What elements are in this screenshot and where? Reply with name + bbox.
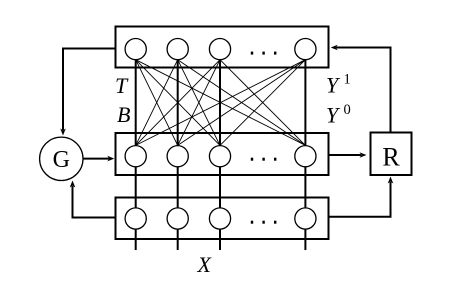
svg-text:0: 0 [344, 102, 351, 118]
svg-text:R: R [382, 143, 400, 172]
svg-text:1: 1 [344, 72, 351, 88]
svg-text:B: B [117, 102, 130, 127]
svg-text:X: X [197, 252, 213, 277]
svg-text:T: T [115, 73, 129, 98]
svg-text:G: G [53, 147, 70, 173]
